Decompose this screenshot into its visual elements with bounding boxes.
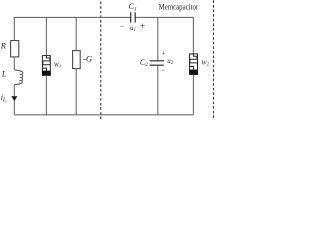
- capacitor C2 top plate: [150, 60, 165, 62]
- current arrow iL: [11, 96, 17, 101]
- wire C2 branch lower: [157, 65, 159, 115]
- svg-text:+: +: [161, 49, 165, 58]
- conductance -G box: [73, 51, 81, 69]
- resistor R: [11, 41, 19, 57]
- wire left edge above R: [13, 17, 15, 40]
- inductor L coil: [14, 68, 23, 85]
- wire W2 branch upper: [192, 17, 194, 54]
- wire W2 branch lower: [192, 74, 194, 114]
- capacitor C2 bottom plate: [150, 64, 164, 66]
- wire top rail right of C1: [136, 16, 194, 18]
- wire below L: [13, 85, 15, 115]
- svg-text:W1: W1: [54, 62, 61, 69]
- svg-text:+: +: [140, 22, 145, 32]
- wire W1 branch upper: [45, 17, 47, 55]
- wire between R and L: [13, 57, 15, 69]
- wire W1 branch lower: [45, 75, 47, 115]
- wire -G branch upper: [75, 17, 77, 50]
- capacitor C1 right plate: [134, 12, 136, 22]
- wire -G branch lower: [75, 69, 77, 115]
- svg-text:−: −: [120, 21, 124, 30]
- wire C2 branch upper: [157, 17, 159, 60]
- memristor W1: [42, 56, 50, 76]
- wire top rail left of C1: [14, 16, 130, 18]
- svg-text:L: L: [1, 69, 7, 79]
- svg-text:−: −: [161, 66, 165, 74]
- dashed separator line left: [100, 2, 102, 121]
- svg-text:Memcapacitor: Memcapacitor: [159, 3, 199, 12]
- memristor W2: [190, 54, 198, 75]
- capacitor C1 left plate: [130, 12, 132, 22]
- dashed separator line right: [213, 0, 215, 120]
- wire bottom rail: [14, 114, 193, 116]
- svg-text:R: R: [0, 42, 6, 51]
- svg-text:-G: -G: [83, 54, 93, 64]
